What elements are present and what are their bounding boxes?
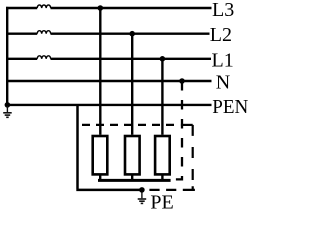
wire R3 bottom lead [161, 175, 163, 179]
resistor load R1 [93, 136, 108, 174]
ground PE earth electrode [138, 192, 147, 203]
consumer boundary bottom-right corner [193, 186, 195, 190]
resistor load R3 [155, 136, 170, 174]
wire R1 bottom lead [99, 175, 101, 179]
consumer boundary dashed right edge [192, 125, 194, 183]
svg-text:PEN: PEN [212, 96, 248, 118]
svg-text:L1: L1 [212, 50, 234, 72]
wire L3 dropper [99, 8, 101, 135]
wire PEN [6, 104, 212, 106]
inductor winding on L1 [37, 56, 51, 59]
wire load star-point bus [98, 179, 171, 182]
inductor winding on L3 [37, 5, 51, 8]
junction node on N [179, 78, 185, 84]
consumer boundary dashed bottom edge [146, 189, 194, 191]
wire L2 dropper [131, 34, 133, 135]
wire L2 [6, 33, 210, 35]
junction node on L3 [98, 5, 104, 11]
wire L3 [6, 7, 212, 9]
ground source earth [3, 106, 12, 117]
svg-text:L2: L2 [210, 24, 232, 46]
consumer boundary top-right corner [181, 124, 193, 126]
inductor winding on L2 [37, 31, 51, 34]
wire left source bus [6, 7, 8, 105]
svg-text:N: N [216, 72, 230, 94]
junction node on L2 [129, 31, 135, 37]
wire L1 dropper [161, 59, 163, 135]
junction node PE [139, 187, 145, 193]
junction node on L1 [160, 56, 166, 62]
svg-text:L3: L3 [212, 0, 234, 21]
wire L1 [6, 58, 211, 60]
wire PEN dropper to PE [76, 105, 142, 190]
svg-text:PE: PE [150, 192, 173, 213]
resistor load R2 [125, 136, 140, 174]
consumer boundary dashed top edge [82, 124, 177, 126]
wire N dropper dashed [171, 81, 182, 179]
wire N [6, 80, 212, 82]
junction node source star point on PEN [5, 102, 11, 108]
wire R2 bottom lead [131, 175, 133, 179]
